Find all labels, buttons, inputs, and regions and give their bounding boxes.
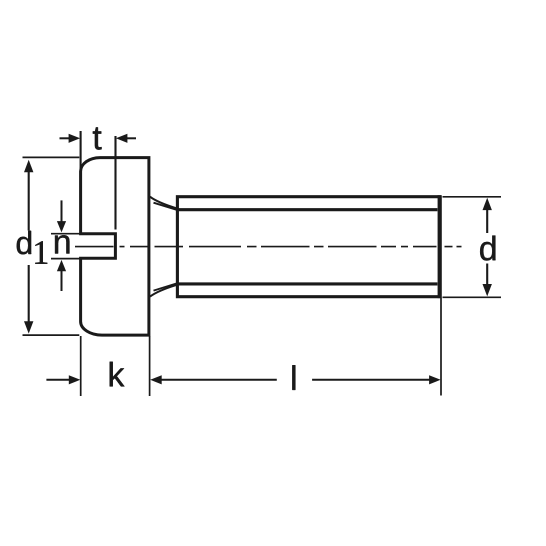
thread runout line bottom xyxy=(154,283,177,290)
dimension d1: bottom arrow xyxy=(28,265,30,322)
dimension n: top arrow (pointing down) xyxy=(61,200,63,222)
dimension d1: top arrow xyxy=(24,160,33,172)
dimension n: extension line bottom xyxy=(51,258,80,260)
dimension n: extension line top xyxy=(51,233,80,235)
label t xyxy=(93,127,102,149)
thread runout line top xyxy=(154,203,177,210)
thread root line bottom xyxy=(177,282,437,285)
dimension d1: extension line top xyxy=(23,156,80,158)
dimension n: bottom arrow (pointing up) xyxy=(61,271,63,292)
screw head outline xyxy=(81,158,149,336)
dimension l: shared arrow pointing left at head base xyxy=(150,375,162,384)
dimension t: extension line right (slot bottom) xyxy=(114,136,116,230)
dimension l: extension line right (below thread end) xyxy=(440,298,442,396)
dimension d: bottom arrow xyxy=(486,264,488,286)
dimension t: extension line left (head face top) xyxy=(80,131,82,172)
label n xyxy=(55,235,69,253)
dimension t: right arrow xyxy=(127,137,137,139)
label k xyxy=(110,362,125,387)
thread end face (thick) xyxy=(438,195,442,298)
thread root line top xyxy=(177,208,437,211)
dimension d1: extension line bottom xyxy=(23,334,80,336)
center line (dash-dot axis) xyxy=(75,246,462,248)
dimension d: extension line bottom xyxy=(443,296,502,298)
dimension t: left arrow xyxy=(60,137,70,139)
dimension d: top arrow xyxy=(483,198,492,210)
dimension l: right shaft and arrow xyxy=(312,379,429,381)
label d xyxy=(480,236,495,261)
thread runout arc top xyxy=(150,197,177,209)
dimension d: extension line top xyxy=(443,196,502,198)
dimension k: extension line left xyxy=(80,336,82,396)
label d1 xyxy=(17,231,31,255)
thread runout arc bottom xyxy=(150,285,177,297)
dimension k: extension line right xyxy=(149,336,151,396)
thread outer profile rectangle xyxy=(177,197,439,297)
label l xyxy=(292,365,295,390)
dimension k: left arrow xyxy=(46,379,69,381)
